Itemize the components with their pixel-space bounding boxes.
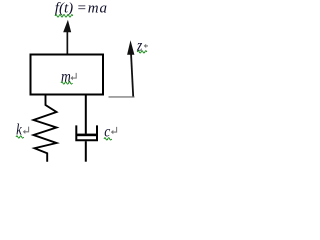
z axis baseline (gray) (109, 96, 135, 98)
damper cup (76, 125, 97, 140)
svg-text:f(t): f(t) (55, 0, 73, 16)
svg-text:=ma: =ma (77, 0, 108, 16)
line-break mark after m (70, 73, 76, 80)
grammar squiggle under c (104, 138, 112, 140)
line-break mark after z (144, 41, 150, 48)
grammar squiggle under z (137, 51, 146, 53)
spring k (34, 96, 57, 162)
damper piston plate (76, 134, 98, 137)
damper rod upper (85, 96, 87, 134)
damper rod lower (85, 141, 87, 162)
mass box (31, 55, 104, 95)
grammar squiggle under k (16, 136, 24, 138)
z axis arrow shaft (131, 53, 133, 97)
line-break mark after c (111, 127, 117, 134)
force arrow shaft (67, 32, 69, 55)
grammar squiggle under m (61, 82, 72, 84)
force label f(t)=ma (55, 0, 108, 16)
force arrow head (63, 20, 71, 33)
svg-text:m: m (61, 69, 71, 86)
line-break mark after k (23, 127, 29, 134)
z axis arrow head (127, 40, 134, 55)
grammar squiggle under f(t) (55, 15, 73, 18)
